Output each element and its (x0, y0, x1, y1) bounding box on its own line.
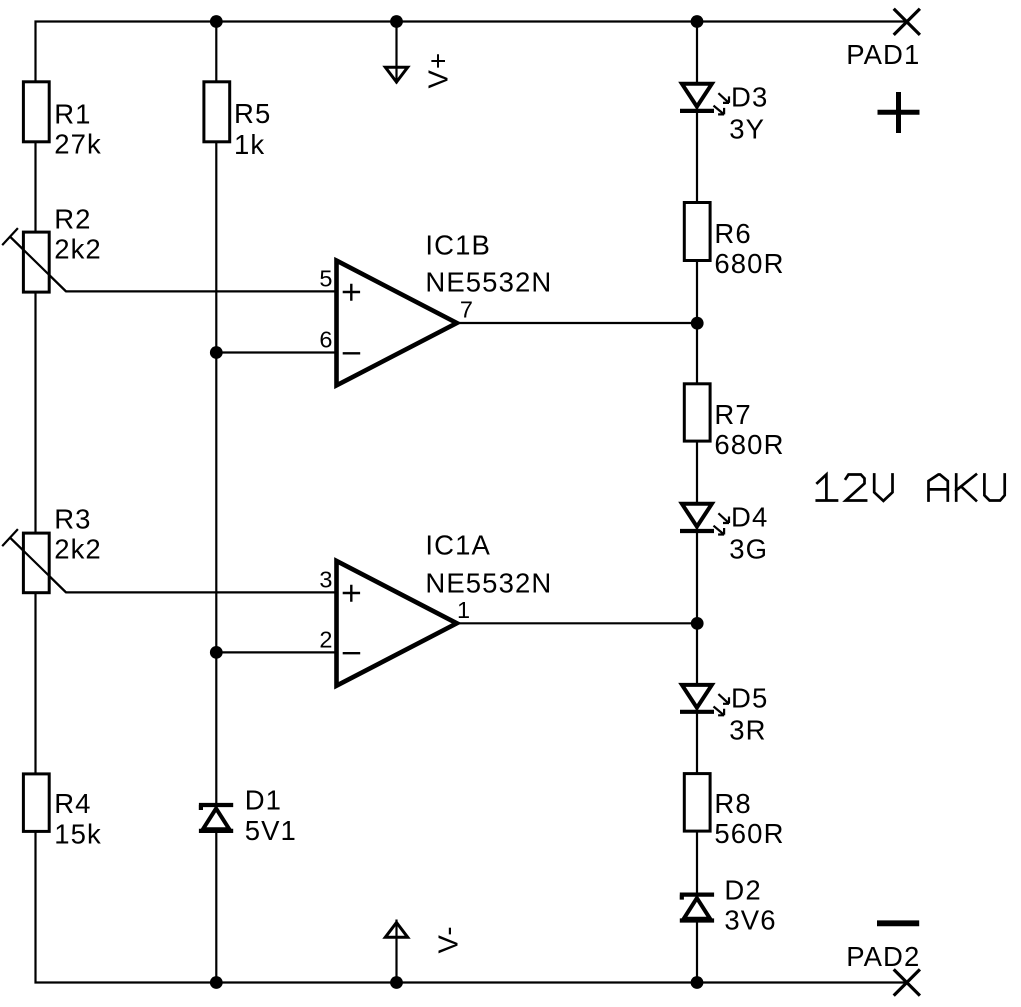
svg-text:R4: R4 (54, 788, 91, 819)
svg-text:5V1: 5V1 (245, 815, 297, 846)
svg-text:R6: R6 (714, 218, 751, 249)
svg-text:R3: R3 (54, 504, 91, 535)
svg-text:R7: R7 (714, 399, 751, 430)
svg-text:2k2: 2k2 (54, 534, 102, 565)
svg-text:3V6: 3V6 (724, 905, 776, 936)
svg-text:15k: 15k (54, 818, 102, 849)
svg-text:2: 2 (319, 627, 332, 653)
svg-text:3R: 3R (729, 714, 766, 745)
svg-text:3Y: 3Y (729, 113, 765, 144)
svg-text:2k2: 2k2 (54, 234, 102, 265)
svg-text:6: 6 (319, 327, 332, 353)
svg-text:V+: V+ (423, 52, 454, 89)
svg-text:D5: D5 (731, 682, 768, 713)
svg-text:R1: R1 (54, 99, 91, 130)
svg-text:D3: D3 (731, 82, 768, 113)
svg-text:5: 5 (319, 266, 332, 292)
svg-text:IC1A: IC1A (425, 529, 491, 560)
svg-text:1: 1 (457, 597, 470, 623)
svg-text:NE5532N: NE5532N (425, 568, 552, 599)
svg-text:1k: 1k (234, 129, 265, 160)
svg-text:R5: R5 (234, 98, 271, 129)
svg-text:680R: 680R (714, 429, 784, 460)
svg-text:PAD1: PAD1 (846, 39, 920, 70)
svg-text:27k: 27k (54, 129, 102, 160)
svg-text:PAD2: PAD2 (846, 941, 920, 972)
svg-text:D1: D1 (245, 785, 282, 816)
svg-text:3G: 3G (729, 534, 768, 565)
svg-text:680R: 680R (714, 248, 784, 279)
svg-text:D2: D2 (724, 875, 761, 906)
svg-text:R8: R8 (714, 788, 751, 819)
svg-text:D4: D4 (731, 502, 768, 533)
svg-text:IC1B: IC1B (425, 229, 491, 260)
svg-text:7: 7 (460, 296, 473, 322)
svg-text:3: 3 (319, 567, 332, 593)
svg-text:R2: R2 (54, 204, 91, 235)
svg-text:V-: V- (433, 925, 464, 953)
svg-text:560R: 560R (714, 818, 784, 849)
svg-text:NE5532N: NE5532N (425, 266, 552, 297)
